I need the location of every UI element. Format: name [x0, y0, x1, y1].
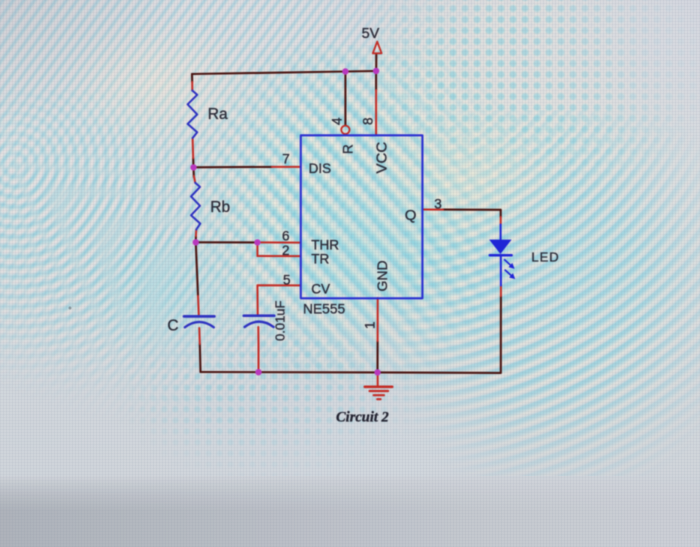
- svg-text:5: 5: [283, 272, 291, 287]
- svg-text:Ra: Ra: [208, 106, 228, 123]
- svg-text:NE555: NE555: [303, 302, 346, 317]
- svg-text:Circuit 2: Circuit 2: [336, 410, 389, 426]
- svg-text:8: 8: [360, 117, 375, 125]
- svg-text:LED: LED: [531, 250, 559, 265]
- svg-text:C: C: [167, 318, 178, 335]
- svg-text:6: 6: [282, 229, 290, 244]
- svg-text:0.01uF: 0.01uF: [273, 300, 288, 341]
- svg-text:R: R: [341, 144, 356, 154]
- svg-text:GND: GND: [374, 260, 390, 291]
- svg-text:2: 2: [282, 243, 290, 258]
- svg-text:Rb: Rb: [210, 199, 230, 216]
- svg-text:1: 1: [363, 321, 378, 329]
- svg-text:5V: 5V: [362, 26, 380, 42]
- svg-text:4: 4: [330, 117, 345, 125]
- svg-text:7: 7: [282, 151, 290, 166]
- svg-text:CV: CV: [311, 282, 330, 297]
- svg-text:DIS: DIS: [309, 161, 332, 176]
- svg-text:3: 3: [434, 197, 442, 212]
- svg-text:Q: Q: [405, 207, 417, 224]
- svg-text:TR: TR: [311, 251, 329, 266]
- svg-text:VCC: VCC: [374, 142, 391, 174]
